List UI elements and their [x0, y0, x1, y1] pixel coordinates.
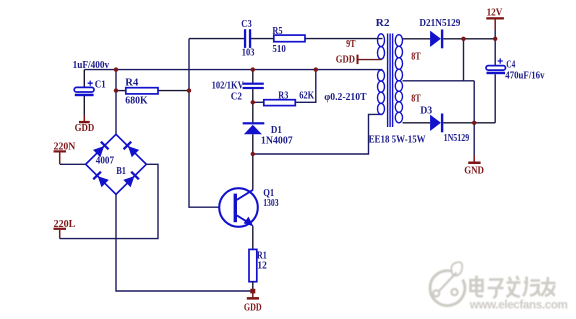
wire vertical x=116 bus to bridge top vertex — [115, 70, 117, 135]
wire C2 to D1 — [252, 89, 254, 122]
ground GND — [464, 155, 484, 176]
wire main bus y=69.6 from C1 to transformer primary — [84, 69, 382, 71]
transformer primary winding 9T section — [378, 34, 385, 59]
svg-text:1uF/400v: 1uF/400v — [73, 59, 110, 71]
svg-text:D21N5129: D21N5129 — [419, 17, 460, 29]
svg-text:B1: B1 — [116, 166, 126, 177]
wire vertical x=189 down to Q1 base — [189, 39, 220, 208]
svg-text:www.elecfans.com: www.elecfans.com — [469, 298, 568, 311]
node D2 output — [461, 37, 465, 41]
wire emitter down to R1 — [252, 226, 254, 250]
svg-text:GDD: GDD — [75, 123, 95, 134]
wire D2 to 12V rail — [443, 38, 495, 40]
svg-text:EE18 5W-15W: EE18 5W-15W — [369, 134, 426, 146]
node bus/R3 — [314, 67, 318, 71]
svg-text:680K: 680K — [125, 94, 148, 106]
svg-text:C4: C4 — [506, 58, 515, 70]
wire bottom rail — [116, 194, 253, 291]
wire x=474 down to GND — [473, 81, 475, 155]
svg-text:12V: 12V — [487, 8, 503, 19]
node R1 bottom — [250, 289, 255, 294]
node R4 left — [114, 88, 118, 92]
svg-text:510: 510 — [272, 43, 286, 55]
wire R4 left and right leads — [116, 90, 189, 92]
svg-text:φ0.2-210T: φ0.2-210T — [324, 91, 367, 103]
svg-text:1N4007: 1N4007 — [261, 135, 293, 147]
resistor R1 — [249, 249, 267, 281]
svg-text:1N5129: 1N5129 — [444, 133, 470, 144]
svg-text:C2: C2 — [231, 90, 243, 102]
bridge rectifier B1 diamond — [86, 134, 147, 194]
wire secondary top to D2 — [403, 38, 431, 40]
wire center tap of secondary — [403, 80, 475, 82]
svg-text:8T: 8T — [411, 94, 421, 105]
svg-text:12: 12 — [257, 260, 267, 272]
capacitor C2 — [212, 79, 264, 102]
svg-text:R3: R3 — [278, 90, 288, 102]
node R4 right at x189 — [187, 88, 191, 92]
capacitor C3 — [241, 18, 254, 59]
svg-text:R4: R4 — [125, 76, 138, 88]
node collector — [251, 152, 255, 156]
svg-text:R2: R2 — [376, 17, 391, 29]
capacitor C4 — [486, 58, 545, 81]
wire R3 leads and right vertical up to bus — [253, 70, 316, 103]
wire C2 stem from bus — [252, 70, 254, 83]
wire collector junction to transformer primary bottom — [253, 114, 383, 154]
wire R1 bottom to rail — [252, 282, 254, 291]
bridge diode top-right — [123, 141, 140, 158]
wire 220L to bridge right vertex — [60, 164, 158, 238]
svg-text:C1: C1 — [95, 78, 106, 90]
wire D1 to collector junction and down to Q1 — [252, 134, 254, 189]
svg-text:GND: GND — [464, 165, 484, 176]
transformer primary winding 210T section — [378, 70, 385, 114]
svg-text:1303: 1303 — [263, 197, 279, 209]
svg-text:D3: D3 — [420, 106, 432, 117]
svg-text:470uF/16v: 470uF/16v — [505, 70, 545, 81]
power 12V — [486, 8, 504, 30]
node bus/C2 — [251, 67, 255, 71]
terminal 220N — [54, 142, 76, 164]
svg-text:GDD: GDD — [336, 55, 356, 66]
node C2/R3/D1 — [251, 100, 255, 104]
svg-text:C3: C3 — [241, 18, 252, 30]
wire from D2 junction down to center tap — [463, 39, 465, 81]
diode D3 — [420, 106, 469, 145]
node 12V rail — [493, 37, 497, 41]
transformer secondary winding bottom 8T — [395, 81, 402, 123]
node bus/C1-R4 branch — [114, 67, 118, 71]
wire 220N to bridge left vertex — [60, 163, 86, 165]
bridge diode bottom-left — [92, 171, 109, 188]
tap GDD at transformer — [336, 55, 382, 66]
wire 12V rail down to C4 — [494, 30, 496, 66]
wire C1 stem — [83, 70, 85, 116]
svg-text:8T: 8T — [411, 52, 421, 63]
resistor R3 — [264, 90, 315, 106]
diode D1 — [243, 122, 293, 147]
node D3 output — [472, 121, 476, 125]
svg-text:62K: 62K — [299, 90, 314, 102]
watermark logo elecfans — [430, 262, 465, 305]
transformer secondary winding top 8T — [395, 35, 402, 81]
svg-text:R5: R5 — [272, 25, 283, 37]
terminal 220L — [54, 219, 76, 239]
bridge diode top-left — [93, 141, 110, 158]
ground GDD under R1 — [244, 291, 262, 314]
resistor R5 — [272, 25, 305, 55]
capacitor C1 — [73, 59, 110, 96]
transistor Q1 — [219, 187, 279, 227]
transformer R2 core — [388, 34, 393, 128]
watermark chinese text 电子发烧友 — [471, 276, 556, 298]
svg-text:9T: 9T — [346, 39, 356, 50]
resistor R4 — [125, 76, 158, 106]
wire D3 to C4 bottom — [443, 122, 495, 124]
svg-text:GDD: GDD — [244, 303, 262, 314]
ground GDD under C1 — [75, 115, 95, 134]
wire C4 bottom down — [494, 74, 496, 123]
svg-text:4007: 4007 — [96, 156, 114, 167]
wire top chain from node at x189 to C3, C3 to R5, R5 to transformer primary top — [189, 38, 383, 40]
svg-text:103: 103 — [242, 47, 255, 59]
bridge diode bottom-right — [123, 171, 140, 188]
diode D2 — [419, 17, 460, 48]
wire secondary bottom to D3 — [403, 122, 431, 124]
